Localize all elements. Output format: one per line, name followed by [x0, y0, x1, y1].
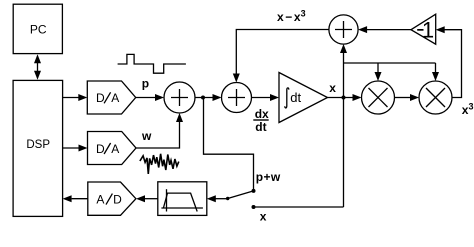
- multiplier M2: [419, 81, 452, 114]
- wire D/A2 to summer S1, node w: [136, 113, 183, 148]
- converter D/A2: [88, 132, 137, 165]
- wire M2 to inverter, node x3: [436, 26, 462, 97]
- wire PC-DSP bidirectional: [34, 54, 41, 80]
- pulse signal icon: [118, 54, 186, 73]
- svg-text:PC: PC: [30, 23, 47, 37]
- wire drop to M2 top: [432, 63, 439, 81]
- svg-text:x: x: [329, 81, 336, 95]
- label A/D: [96, 193, 122, 207]
- block PC: [13, 4, 62, 53]
- wire p+w tap down to switch: [204, 98, 254, 191]
- summer S1: [164, 82, 195, 113]
- svg-text:w: w: [141, 129, 152, 143]
- svg-text:A: A: [111, 91, 119, 105]
- wire x feedback vertical: [340, 44, 347, 207]
- wire integrator to multiplier M1, node x: [328, 94, 362, 101]
- wire bottom node x to switch contact: [254, 206, 344, 208]
- label integrator: [285, 88, 289, 108]
- summer S2: [222, 83, 252, 113]
- svg-text:1: 1: [422, 17, 434, 42]
- wire M1 to M2: [395, 94, 420, 101]
- integrator U1: [279, 73, 328, 123]
- label gain -1: [417, 17, 434, 42]
- summer S3: [329, 15, 358, 44]
- svg-text:p: p: [142, 76, 149, 90]
- wire switch to filter: [207, 195, 228, 202]
- junction bottom x contact: [252, 205, 256, 209]
- wire filter to A/D: [136, 195, 158, 202]
- inverter gain -1: [411, 14, 436, 44]
- wire drop to M1 top: [375, 63, 382, 81]
- converter A/D: [88, 182, 136, 215]
- wire S1 to S2: [195, 94, 222, 101]
- label D/A1: [96, 91, 119, 105]
- wire S2 to integrator: [252, 94, 280, 101]
- wire S3 to S2, net x-x3: [233, 30, 329, 83]
- noise signal icon: [140, 154, 179, 174]
- block DSP: [13, 80, 63, 216]
- wire DSP to D/A1: [63, 94, 88, 101]
- wire A/D to DSP: [63, 195, 88, 202]
- wire x to multiplier tops: [344, 62, 436, 64]
- svg-text:D: D: [96, 142, 105, 156]
- svg-text:D: D: [96, 91, 105, 105]
- svg-text:DSP: DSP: [26, 139, 50, 151]
- junction switch pole p+w: [252, 189, 256, 193]
- wire inverter to summer S3: [358, 26, 411, 33]
- svg-text:A: A: [111, 142, 119, 156]
- wire DSP to D/A2: [63, 145, 88, 152]
- multiplier M1: [362, 81, 395, 114]
- junction node x: [342, 96, 346, 100]
- converter D/A1: [87, 81, 135, 114]
- svg-text:dt: dt: [290, 90, 301, 105]
- svg-text:x: x: [260, 210, 267, 224]
- junction switch throw: [226, 197, 229, 200]
- svg-text:D: D: [113, 193, 122, 207]
- label dx/dt: [253, 107, 269, 134]
- label D/A2: [96, 142, 119, 156]
- filter F1 low-pass: [158, 182, 207, 216]
- svg-text:p+w: p+w: [256, 170, 281, 184]
- svg-text:A: A: [96, 193, 104, 207]
- switch SW1 blade: [228, 191, 254, 199]
- svg-text:dt: dt: [255, 120, 266, 134]
- junction p+w tap: [201, 96, 205, 100]
- wire D/A1 to summer S1, node p: [136, 94, 164, 101]
